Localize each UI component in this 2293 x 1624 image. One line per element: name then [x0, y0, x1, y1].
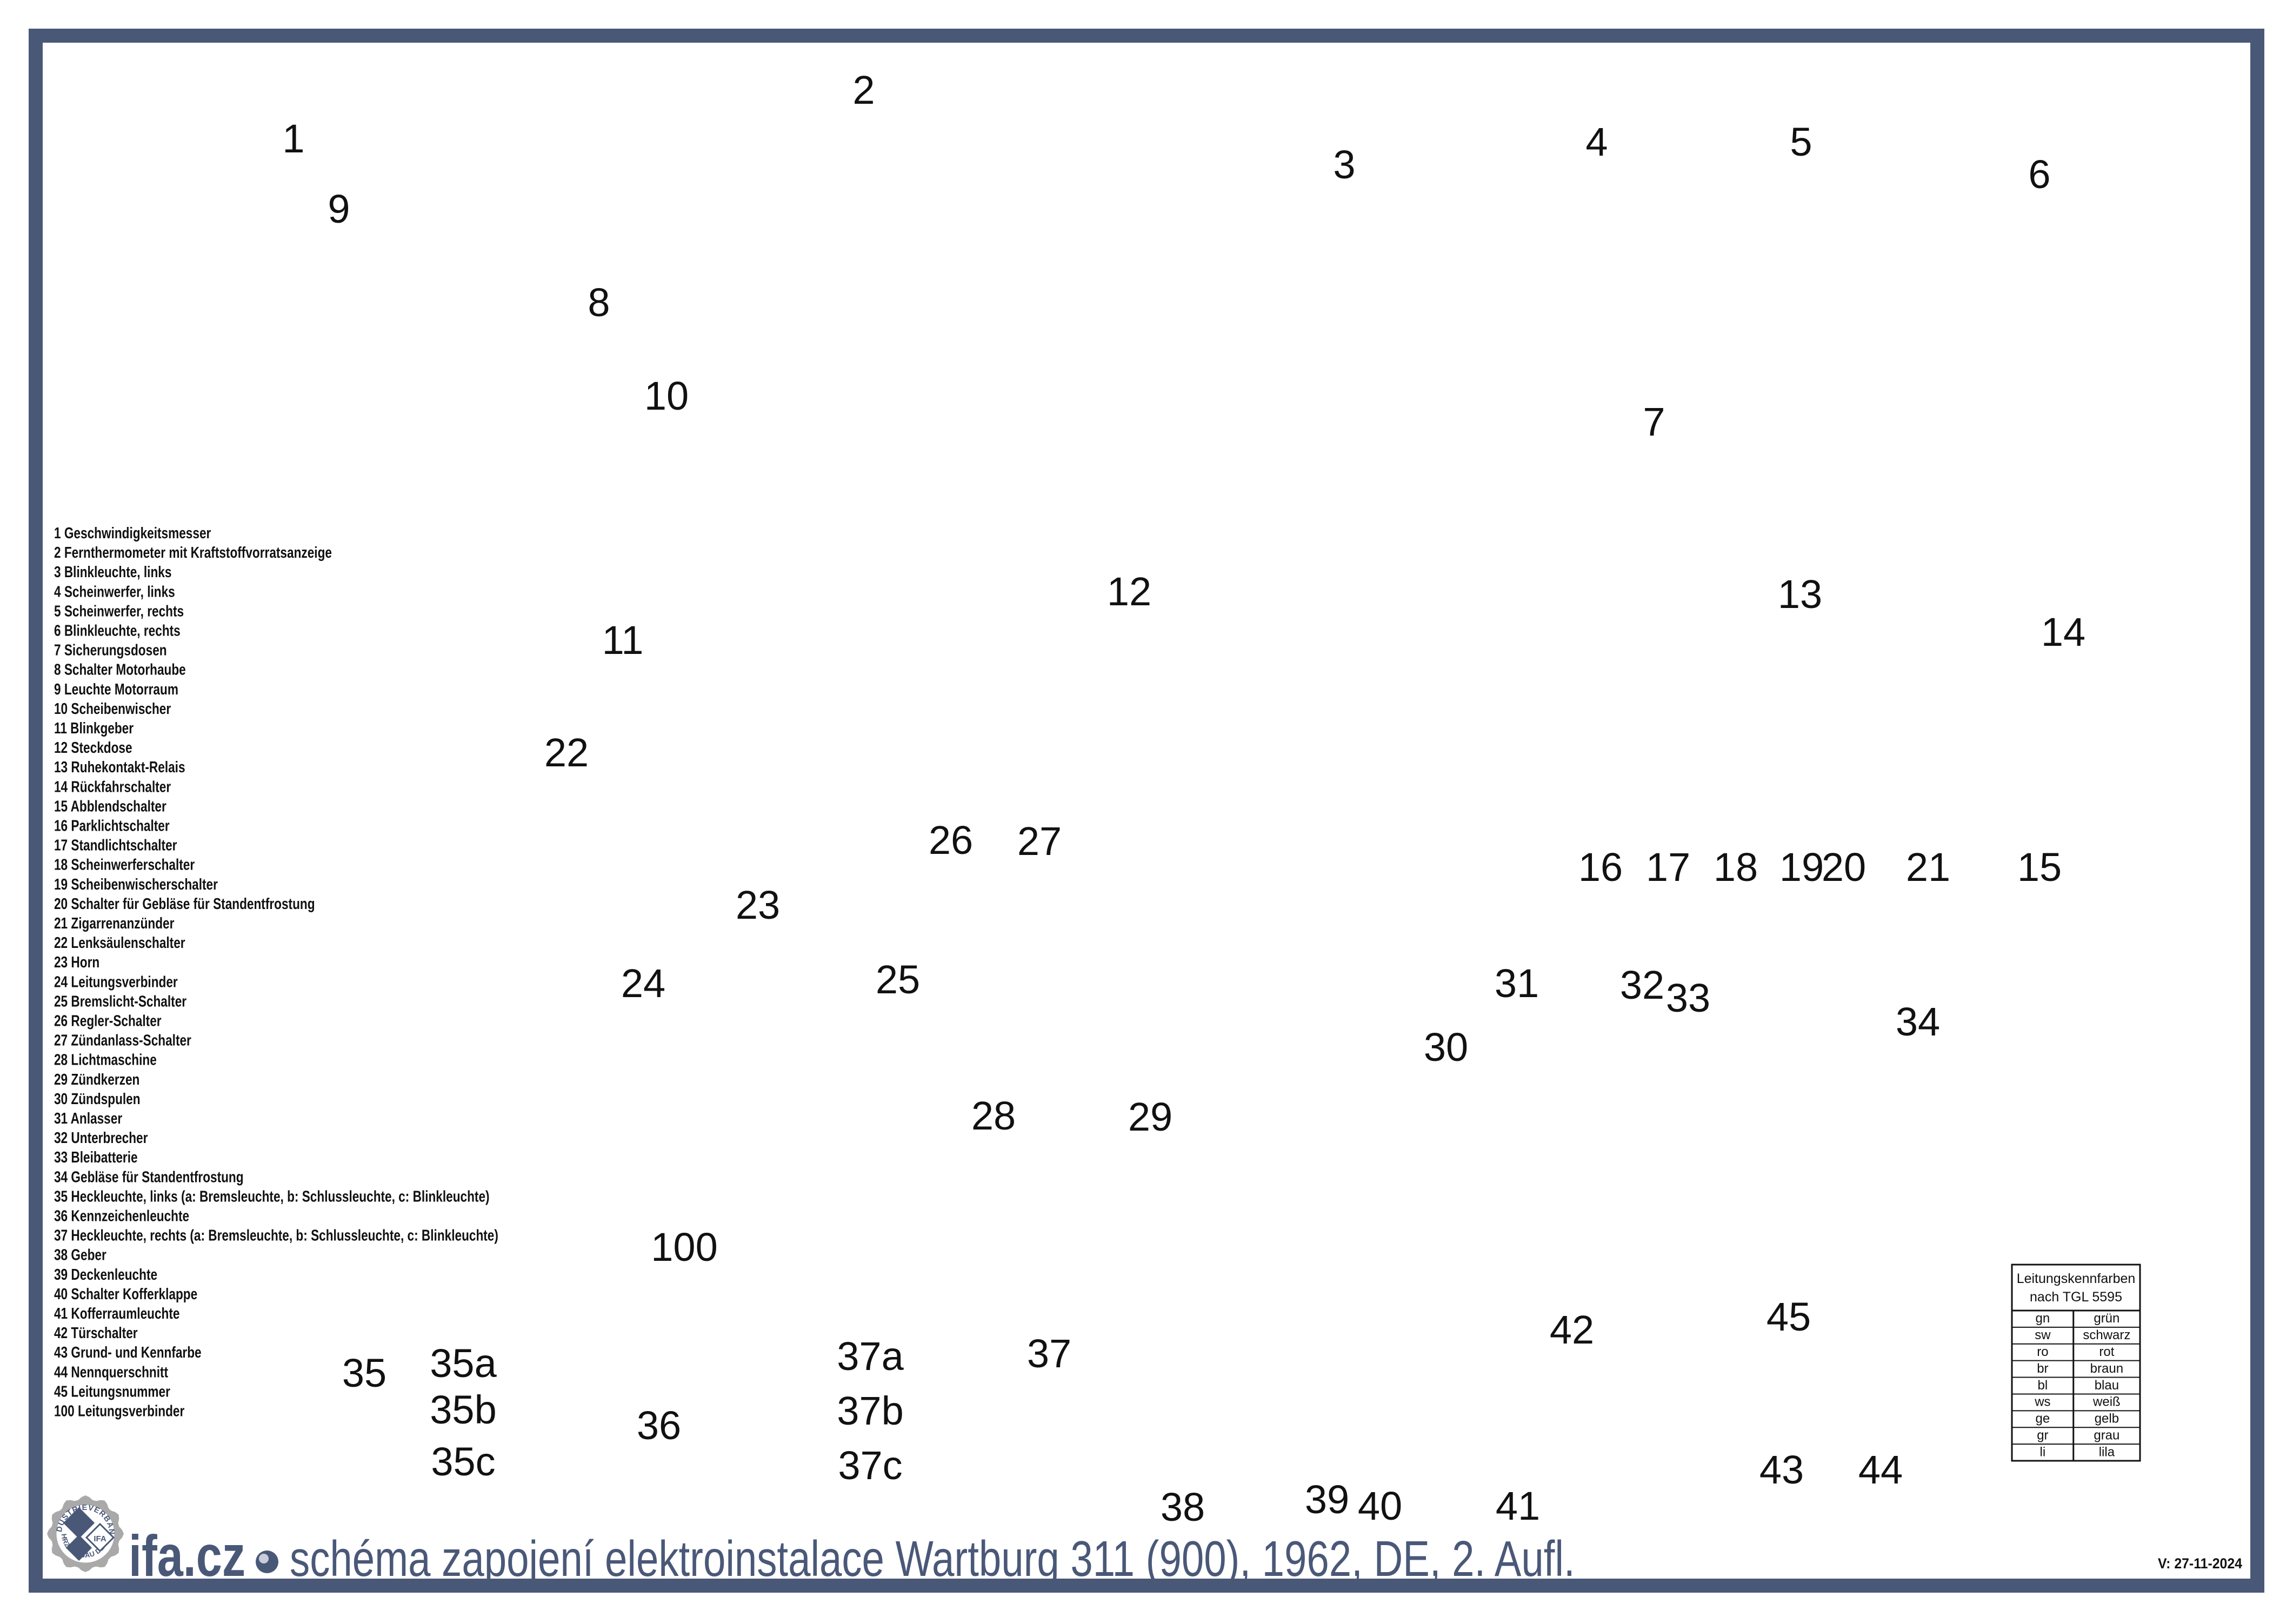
svg-text:Leitungskennfarben: Leitungskennfarben	[2017, 1271, 2136, 1286]
svg-text:38 Geber: 38 Geber	[54, 1246, 106, 1264]
svg-text:40 Schalter Kofferklappe: 40 Schalter Kofferklappe	[54, 1285, 197, 1302]
svg-text:37b: 37b	[837, 1388, 903, 1433]
svg-text:100: 100	[651, 1225, 717, 1269]
svg-text:16: 16	[1578, 845, 1623, 890]
svg-text:11: 11	[602, 618, 644, 663]
svg-text:9: 9	[328, 186, 350, 231]
svg-text:35: 35	[342, 1351, 386, 1395]
svg-text:20: 20	[1822, 845, 1866, 890]
svg-text:30 Zündspulen: 30 Zündspulen	[54, 1090, 141, 1107]
svg-text:schéma zapojení elektroinstala: schéma zapojení elektroinstalace Wartbur…	[290, 1531, 1575, 1587]
svg-text:10: 10	[644, 373, 689, 418]
svg-text:31: 31	[1495, 961, 1539, 1006]
svg-text:16 Parklichtschalter: 16 Parklichtschalter	[54, 817, 170, 834]
svg-text:4: 4	[1585, 119, 1608, 164]
svg-text:11 Blinkgeber: 11 Blinkgeber	[54, 719, 134, 737]
svg-text:28: 28	[971, 1093, 1016, 1138]
svg-text:21 Zigarrenanzünder: 21 Zigarrenanzünder	[54, 914, 174, 932]
svg-text:22: 22	[544, 730, 589, 775]
svg-text:15 Abblendschalter: 15 Abblendschalter	[54, 797, 166, 815]
svg-text:43 Grund- und Kennfarbe: 43 Grund- und Kennfarbe	[54, 1343, 202, 1361]
svg-text:32 Unterbrecher: 32 Unterbrecher	[54, 1128, 148, 1146]
svg-text:14 Rückfahrschalter: 14 Rückfahrschalter	[54, 778, 171, 796]
svg-text:29 Zündkerzen: 29 Zündkerzen	[54, 1070, 139, 1088]
svg-text:40: 40	[1358, 1483, 1402, 1528]
svg-text:100 Leitungsverbinder: 100 Leitungsverbinder	[54, 1402, 184, 1420]
svg-text:21: 21	[1906, 845, 1950, 890]
svg-text:45: 45	[1767, 1294, 1811, 1339]
svg-text:18: 18	[1714, 845, 1758, 890]
svg-text:gelb: gelb	[2095, 1412, 2119, 1426]
svg-text:V: 27-11-2024: V: 27-11-2024	[2158, 1556, 2243, 1572]
svg-text:17: 17	[1646, 845, 1690, 890]
svg-text:24: 24	[621, 961, 665, 1006]
svg-text:br: br	[2037, 1361, 2048, 1376]
svg-text:braun: braun	[2090, 1361, 2123, 1376]
svg-text:32: 32	[1620, 963, 1664, 1007]
svg-text:23: 23	[736, 883, 780, 927]
svg-text:13 Ruhekontakt-Relais: 13 Ruhekontakt-Relais	[54, 758, 185, 776]
svg-text:18 Scheinwerferschalter: 18 Scheinwerferschalter	[54, 856, 195, 873]
svg-text:ws: ws	[2034, 1395, 2050, 1409]
svg-text:sw: sw	[2035, 1328, 2051, 1342]
svg-text:41: 41	[1496, 1483, 1540, 1528]
svg-text:33 Bleibatterie: 33 Bleibatterie	[54, 1148, 138, 1166]
svg-text:30: 30	[1424, 1025, 1468, 1070]
svg-text:44: 44	[1858, 1447, 1903, 1492]
svg-text:15: 15	[2017, 845, 2062, 890]
svg-text:li: li	[2040, 1445, 2046, 1459]
svg-text:lila: lila	[2099, 1445, 2115, 1459]
svg-text:39 Deckenleuchte: 39 Deckenleuchte	[54, 1265, 157, 1283]
svg-text:blau: blau	[2095, 1378, 2119, 1393]
svg-text:38: 38	[1161, 1485, 1205, 1529]
svg-text:27 Zündanlass-Schalter: 27 Zündanlass-Schalter	[54, 1031, 191, 1049]
svg-text:schwarz: schwarz	[2083, 1328, 2130, 1342]
svg-text:weiß: weiß	[2092, 1395, 2121, 1409]
svg-text:25 Bremslicht-Schalter: 25 Bremslicht-Schalter	[54, 992, 186, 1010]
svg-text:7 Sicherungsdosen: 7 Sicherungsdosen	[54, 641, 167, 659]
svg-text:10 Scheibenwischer: 10 Scheibenwischer	[54, 699, 171, 717]
svg-text:ifa.cz: ifa.cz	[129, 1523, 245, 1588]
svg-text:31 Anlasser: 31 Anlasser	[54, 1109, 122, 1127]
svg-text:bl: bl	[2038, 1378, 2048, 1393]
svg-text:39: 39	[1305, 1477, 1349, 1522]
svg-text:27: 27	[1017, 819, 1062, 864]
svg-text:29: 29	[1128, 1094, 1172, 1139]
svg-text:36: 36	[637, 1403, 681, 1448]
svg-text:45 Leitungsnummer: 45 Leitungsnummer	[54, 1382, 170, 1400]
svg-text:43: 43	[1759, 1447, 1804, 1492]
svg-text:41 Kofferraumleuchte: 41 Kofferraumleuchte	[54, 1304, 180, 1322]
svg-text:13: 13	[1778, 572, 1822, 617]
svg-text:37a: 37a	[837, 1334, 904, 1379]
svg-text:37: 37	[1027, 1331, 1071, 1376]
svg-text:rot: rot	[2099, 1345, 2114, 1359]
svg-text:gr: gr	[2037, 1428, 2048, 1442]
svg-text:44 Nennquerschnitt: 44 Nennquerschnitt	[54, 1363, 168, 1381]
svg-text:8 Schalter Motorhaube: 8 Schalter Motorhaube	[54, 660, 186, 678]
svg-text:1: 1	[282, 116, 304, 161]
svg-text:grau: grau	[2094, 1428, 2119, 1442]
svg-text:35c: 35c	[431, 1439, 495, 1484]
svg-text:35a: 35a	[430, 1341, 497, 1386]
svg-text:25: 25	[876, 957, 920, 1002]
svg-text:28 Lichtmaschine: 28 Lichtmaschine	[54, 1051, 157, 1068]
svg-text:36 Kennzeichenleuchte: 36 Kennzeichenleuchte	[54, 1207, 189, 1225]
svg-text:5 Scheinwerfer, rechts: 5 Scheinwerfer, rechts	[54, 602, 184, 620]
svg-text:35b: 35b	[430, 1387, 496, 1432]
svg-text:ro: ro	[2037, 1345, 2048, 1359]
svg-text:2 Fernthermometer mit Kraftsto: 2 Fernthermometer mit Kraftstoffvorratsa…	[54, 543, 332, 561]
svg-text:20 Schalter für Gebläse für St: 20 Schalter für Gebläse für Standentfros…	[54, 894, 315, 912]
svg-text:33: 33	[1666, 975, 1710, 1020]
svg-text:9 Leuchte Motorraum: 9 Leuchte Motorraum	[54, 680, 178, 698]
svg-text:grün: grün	[2094, 1311, 2119, 1326]
svg-text:1 Geschwindigkeitsmesser: 1 Geschwindigkeitsmesser	[54, 524, 211, 542]
svg-text:IFA: IFA	[94, 1534, 106, 1543]
svg-text:24 Leitungsverbinder: 24 Leitungsverbinder	[54, 973, 178, 991]
svg-text:37 Heckleuchte, rechts (a: Bre: 37 Heckleuchte, rechts (a: Bremsleuchte,…	[54, 1226, 498, 1244]
svg-text:12: 12	[1107, 569, 1151, 614]
svg-text:3 Blinkleuchte, links: 3 Blinkleuchte, links	[54, 563, 171, 580]
svg-text:42: 42	[1550, 1307, 1594, 1352]
svg-text:37c: 37c	[838, 1443, 902, 1488]
svg-text:12 Steckdose: 12 Steckdose	[54, 738, 132, 756]
svg-text:42 Türschalter: 42 Türschalter	[54, 1324, 138, 1341]
svg-text:2: 2	[852, 68, 875, 112]
svg-text:35 Heckleuchte, links (a: Brem: 35 Heckleuchte, links (a: Bremsleuchte, …	[54, 1187, 490, 1205]
svg-text:3: 3	[1333, 142, 1355, 187]
svg-text:6: 6	[2028, 152, 2050, 197]
svg-text:8: 8	[588, 280, 610, 325]
svg-text:ge: ge	[2036, 1412, 2050, 1426]
svg-text:22 Lenksäulenschalter: 22 Lenksäulenschalter	[54, 933, 185, 951]
svg-text:19 Scheibenwischerschalter: 19 Scheibenwischerschalter	[54, 875, 218, 893]
svg-text:17 Standlichtschalter: 17 Standlichtschalter	[54, 836, 177, 854]
svg-text:6 Blinkleuchte, rechts: 6 Blinkleuchte, rechts	[54, 621, 181, 639]
svg-text:7: 7	[1643, 399, 1665, 444]
svg-text:26: 26	[929, 818, 973, 863]
svg-text:19: 19	[1779, 845, 1824, 890]
svg-text:14: 14	[2041, 610, 2085, 654]
svg-text:34 Gebläse für Standentfrostun: 34 Gebläse für Standentfrostung	[54, 1168, 244, 1186]
svg-text:5: 5	[1790, 119, 1812, 164]
svg-text:4 Scheinwerfer, links: 4 Scheinwerfer, links	[54, 583, 175, 600]
svg-text:26 Regler-Schalter: 26 Regler-Schalter	[54, 1012, 162, 1030]
svg-text:34: 34	[1896, 999, 1940, 1044]
svg-text:nach TGL 5595: nach TGL 5595	[2030, 1289, 2122, 1305]
svg-text:23 Horn: 23 Horn	[54, 953, 99, 971]
svg-text:gn: gn	[2036, 1311, 2050, 1326]
